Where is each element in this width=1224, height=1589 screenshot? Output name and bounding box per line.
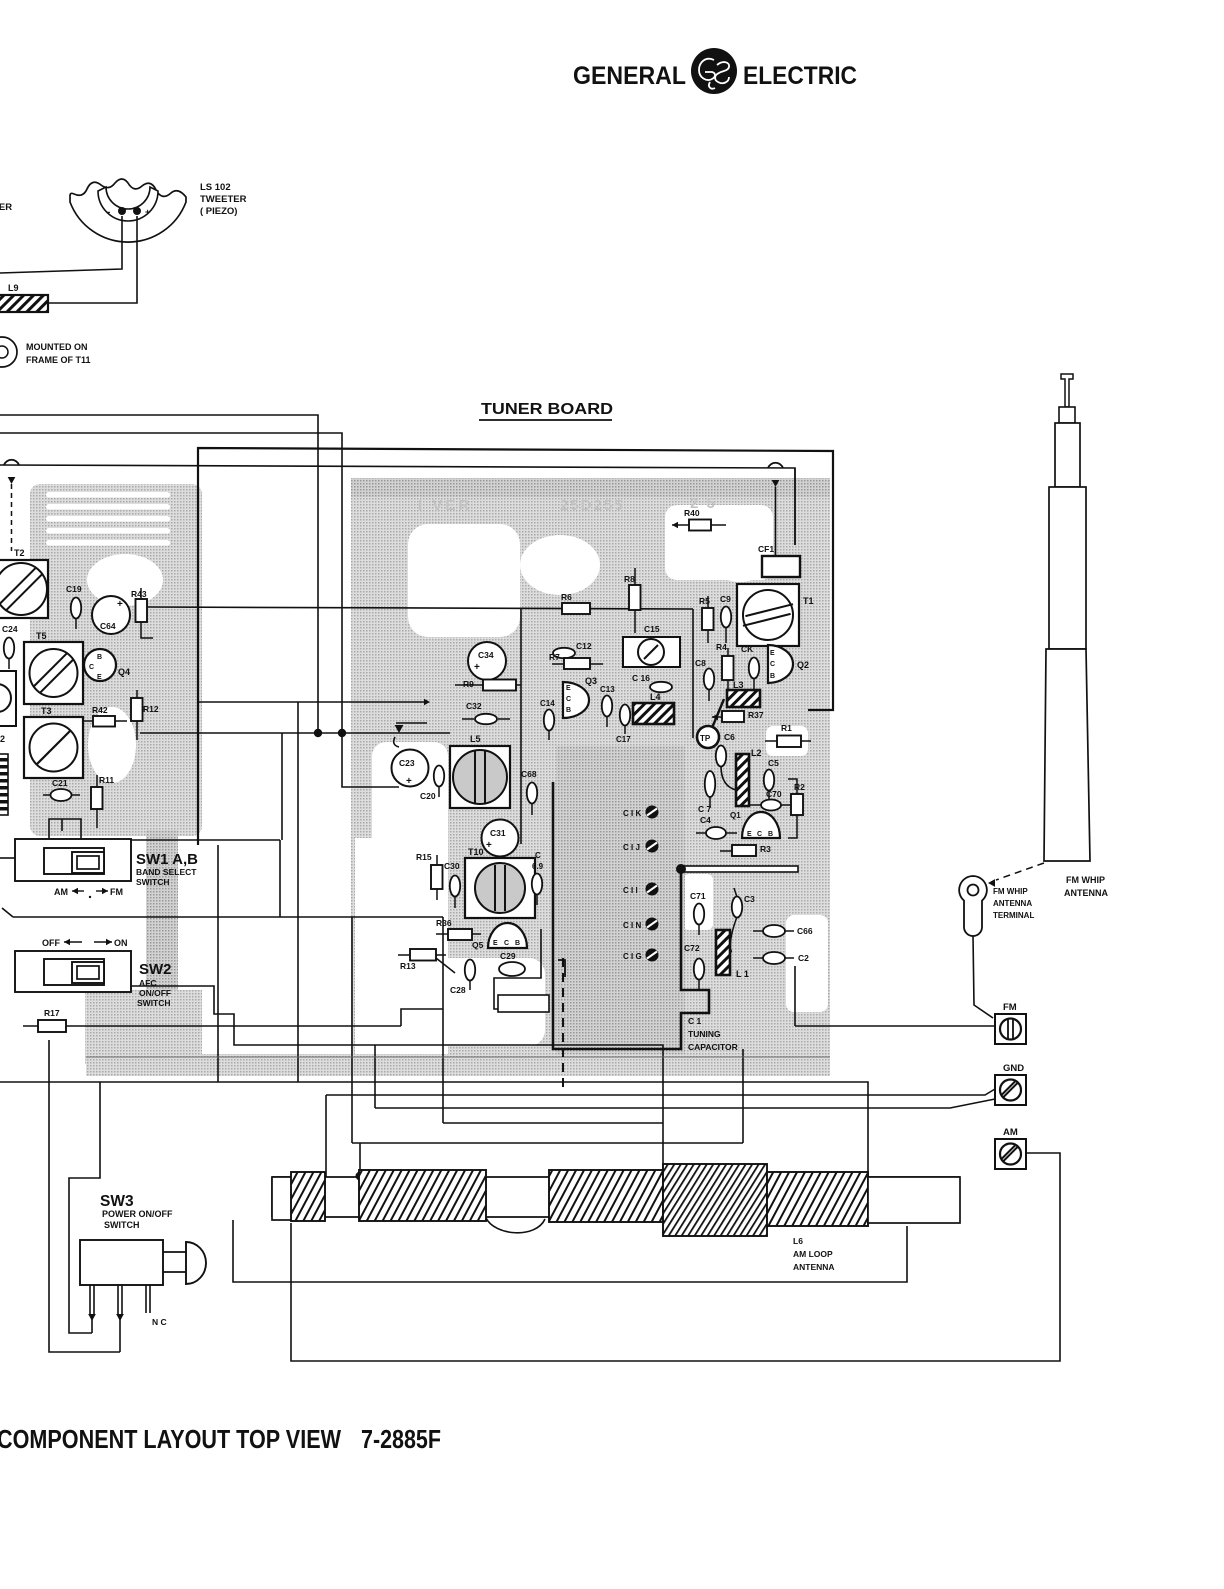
FM whip antenna <box>1044 374 1090 861</box>
svg-text:CF1: CF1 <box>758 544 774 554</box>
svg-text:L6: L6 <box>793 1236 803 1246</box>
svg-text:MOUNTED ON: MOUNTED ON <box>26 342 88 352</box>
svg-text:C I G: C I G <box>623 952 642 961</box>
capacitor C6 <box>716 732 736 790</box>
svg-text:C64: C64 <box>100 621 116 631</box>
svg-text:C8: C8 <box>695 658 706 668</box>
wire FM dipole feed <box>0 465 795 545</box>
svg-text:AM LOOP: AM LOOP <box>793 1249 833 1259</box>
trimmer C1G <box>623 949 659 962</box>
svg-text:C70: C70 <box>766 789 782 799</box>
svg-text:R11: R11 <box>99 775 114 785</box>
wire SW1 row <box>0 840 280 917</box>
svg-text:SWITCH: SWITCH <box>104 1220 140 1230</box>
capacitor C2 <box>753 952 809 964</box>
svg-text:6.9: 6.9 <box>532 862 544 871</box>
capacitor C8 <box>695 658 714 701</box>
wire from left edge y415 <box>0 415 318 733</box>
wire vertical x298 <box>297 702 299 1082</box>
transistor Q1 <box>730 811 780 838</box>
wire vertical x443 <box>442 917 444 1123</box>
capacitor C13 <box>600 685 615 727</box>
svg-text:CK: CK <box>741 644 754 654</box>
label AM FM arrows <box>54 887 123 898</box>
label SW2 AFC ON/OFF SWITCH <box>137 961 172 1008</box>
svg-text:T5: T5 <box>36 631 47 641</box>
svg-text:+: + <box>117 599 123 610</box>
trimmer C1I <box>623 883 659 896</box>
svg-text:C I J: C I J <box>623 843 640 852</box>
capacitor C64 <box>92 596 130 634</box>
svg-text:TP: TP <box>700 734 711 743</box>
svg-text:2: 2 <box>0 734 5 744</box>
svg-text:L9: L9 <box>8 283 19 293</box>
wire vertical x352 <box>351 917 353 1143</box>
wire vertical x100 <box>69 1082 100 1333</box>
svg-text:AFC: AFC <box>139 978 156 988</box>
resistor R5 <box>699 596 714 643</box>
svg-text:C68: C68 <box>521 769 537 779</box>
wire loop antenna lower left <box>233 1220 907 1282</box>
svg-text:SWITCH: SWITCH <box>136 877 170 887</box>
svg-text:GND: GND <box>1003 1063 1024 1074</box>
resistor R7 <box>549 652 603 669</box>
AM loop winding 4 <box>663 1164 767 1236</box>
svg-text:+: + <box>145 207 150 217</box>
wire loop left vertical <box>520 609 522 844</box>
inductor L5 <box>450 734 510 808</box>
svg-text:R12: R12 <box>143 704 159 714</box>
svg-text:R3: R3 <box>760 844 771 854</box>
resistor R1 <box>765 723 811 747</box>
svg-text:C32: C32 <box>466 701 482 711</box>
svg-text:C28: C28 <box>450 985 466 995</box>
transistor Q4 <box>84 649 130 681</box>
wire SW1 hook <box>49 819 81 843</box>
svg-text:FM: FM <box>1003 1002 1017 1013</box>
wire from left edge y433 <box>0 433 342 733</box>
svg-text:SW2: SW2 <box>139 961 172 978</box>
svg-text:R4: R4 <box>716 642 727 652</box>
wire SW3 pin2 <box>119 1315 121 1352</box>
label MOUNTED ON FRAME OF T11 <box>26 342 91 365</box>
transformer T2 <box>0 548 48 618</box>
capacitor C20 <box>420 766 444 802</box>
capacitor C28 <box>450 960 475 996</box>
svg-text:C17: C17 <box>616 735 631 744</box>
resistor R36 <box>436 918 481 940</box>
svg-text:+: + <box>406 776 412 787</box>
AM loop antenna core <box>272 1177 960 1217</box>
svg-text:C12: C12 <box>576 641 592 651</box>
svg-text:E: E <box>493 940 498 947</box>
svg-text:T2: T2 <box>14 548 25 558</box>
wire FM feed <box>795 966 995 1026</box>
wire y733 horizontal <box>140 729 450 737</box>
wire SW3 pin1 <box>91 1315 93 1333</box>
capacitor C12 <box>553 641 592 658</box>
svg-text:BAND SELECT: BAND SELECT <box>136 867 197 877</box>
svg-text:C6: C6 <box>724 732 735 742</box>
svg-text:L5: L5 <box>470 734 481 744</box>
svg-text:E: E <box>770 650 775 657</box>
switch SW1 band select <box>15 839 131 881</box>
trimmer C1J <box>623 840 659 853</box>
trimmer C1K <box>623 806 659 819</box>
label SW3 POWER ON/OFF SWITCH <box>100 1193 173 1230</box>
PCB copper strip bottom <box>86 1054 830 1076</box>
filter C15 <box>623 624 680 667</box>
svg-text:COMPONENT LAYOUT TOP VIEW: COMPONENT LAYOUT TOP VIEW <box>0 1424 341 1454</box>
resistor R11 <box>91 775 114 828</box>
svg-text:E: E <box>566 685 571 692</box>
AM loop left block <box>272 1177 293 1220</box>
wire SW1 bottom row <box>2 908 443 917</box>
wire vertical x49 to SW3 <box>49 1040 120 1352</box>
svg-text:R7: R7 <box>549 652 560 662</box>
svg-text:C30: C30 <box>444 861 460 871</box>
capacitor C30 <box>444 861 460 908</box>
trimmer C1N <box>623 918 659 931</box>
AM loop winding 3 <box>549 1170 663 1222</box>
wire bracket Q5 <box>494 929 541 1009</box>
speaker LS102 tweeter (piezo) <box>70 179 186 242</box>
resistor R2 <box>788 779 805 838</box>
AM loop winding 1 <box>291 1172 325 1221</box>
svg-text:ANTENNA: ANTENNA <box>993 899 1032 908</box>
resistor R15 <box>416 852 443 900</box>
svg-text:C15: C15 <box>644 624 660 634</box>
capacitor C17 <box>616 705 631 745</box>
svg-text:R13: R13 <box>400 961 416 971</box>
svg-text:FM WHIP: FM WHIP <box>993 887 1028 896</box>
svg-text:R40: R40 <box>684 508 700 518</box>
svg-text:TUNING: TUNING <box>688 1029 721 1039</box>
svg-text:C19: C19 <box>66 584 82 594</box>
resistor R17 <box>23 1008 84 1032</box>
capacitor C72 <box>684 943 704 991</box>
svg-text:TWEETER: TWEETER <box>200 194 247 205</box>
wire vertical x282 <box>281 733 283 840</box>
svg-text:T1: T1 <box>803 596 814 606</box>
svg-text:C: C <box>770 661 775 668</box>
svg-text:KER: KER <box>0 202 12 213</box>
svg-text:C24: C24 <box>2 624 18 634</box>
svg-text:R37: R37 <box>748 710 764 720</box>
wire R17 row y1026 <box>84 1009 443 1026</box>
inductor L1 <box>716 930 749 979</box>
svg-text:C29: C29 <box>500 951 516 961</box>
tuning capacitor C1 outline <box>553 782 709 1090</box>
svg-text:+: + <box>486 840 492 851</box>
svg-text:C 16: C 16 <box>632 673 650 683</box>
svg-text:T3: T3 <box>41 706 52 716</box>
transformer T3 <box>24 706 83 778</box>
inductor L9 <box>0 283 48 312</box>
switch SW2 AFC <box>15 951 131 992</box>
svg-text:C5: C5 <box>768 758 779 768</box>
transistor Q2 <box>768 645 809 683</box>
svg-text:B: B <box>770 673 775 680</box>
svg-text:R15: R15 <box>416 852 432 862</box>
svg-text:C I I: C I I <box>623 886 638 895</box>
svg-text:C4: C4 <box>700 815 711 825</box>
svg-text:7-2885F: 7-2885F <box>361 1424 441 1454</box>
svg-text:-: - <box>107 207 110 218</box>
svg-text:C: C <box>566 696 571 703</box>
capacitor C4 <box>696 815 737 839</box>
svg-text:FRAME OF T11: FRAME OF T11 <box>26 355 91 365</box>
svg-text:ON/OFF: ON/OFF <box>139 988 171 998</box>
switch SW3 pins <box>88 1285 166 1327</box>
svg-text:OFF: OFF <box>42 938 60 948</box>
transistor Q3 <box>563 676 597 718</box>
PCB copper region main tuner board <box>351 478 830 1076</box>
svg-text:C: C <box>757 831 762 838</box>
ghost silkscreen lettering <box>418 495 717 514</box>
AM loop right end plate <box>868 1177 960 1223</box>
svg-text:R43: R43 <box>131 589 147 599</box>
inductor L2 <box>736 748 762 806</box>
svg-text:C3: C3 <box>744 894 755 904</box>
resistor R9 <box>455 679 521 691</box>
pad rectangle <box>498 995 549 1012</box>
svg-text:B: B <box>515 940 520 947</box>
svg-text:Q3: Q3 <box>585 676 597 686</box>
svg-text:C I K: C I K <box>623 809 641 818</box>
svg-text:TUNER BOARD: TUNER BOARD <box>481 401 613 418</box>
capacitor C24 <box>2 624 18 669</box>
inductor L4 <box>633 692 674 724</box>
svg-text:C23: C23 <box>399 758 415 768</box>
svg-text:R1: R1 <box>781 723 792 733</box>
svg-text:Q2: Q2 <box>797 660 809 670</box>
svg-text:R8: R8 <box>624 574 635 584</box>
resistor R13 <box>398 949 455 973</box>
dipole terminal symbol right <box>768 463 795 556</box>
svg-text:E: E <box>747 831 752 838</box>
wire vertical x375 <box>374 1045 376 1108</box>
svg-text:L3: L3 <box>733 680 744 690</box>
transformer T1 <box>737 584 814 646</box>
svg-text:C13: C13 <box>600 685 615 694</box>
bus bar <box>676 864 798 874</box>
svg-text:C: C <box>504 940 509 947</box>
svg-text:C I N: C I N <box>623 921 641 930</box>
svg-text:C71: C71 <box>690 891 706 901</box>
svg-text:ELECTRIC: ELECTRIC <box>743 62 857 90</box>
svg-text:T10: T10 <box>468 847 484 857</box>
wire bundle y1123 <box>443 1122 663 1124</box>
svg-text:AM: AM <box>1003 1127 1018 1138</box>
svg-text:FM: FM <box>110 887 123 897</box>
svg-text:POWER ON/OFF: POWER ON/OFF <box>102 1209 173 1219</box>
capacitor C32 <box>462 701 510 724</box>
svg-text:R9: R9 <box>463 679 474 689</box>
svg-text:Q1: Q1 <box>730 811 741 820</box>
connector edge stripes <box>0 754 8 815</box>
label FM WHIP ANTENNA <box>1064 875 1108 898</box>
capacitor C19 <box>66 584 82 629</box>
label C1 TUNING CAPACITOR <box>688 1016 738 1052</box>
svg-text:E: E <box>97 674 102 681</box>
tuner board outline <box>198 448 833 845</box>
svg-text:GENERAL: GENERAL <box>573 62 686 90</box>
mount symbol circle <box>0 337 17 367</box>
title TUNER BOARD <box>479 401 613 420</box>
svg-text:I VER: I VER <box>418 497 472 514</box>
wire antenna dashed to terminal <box>988 863 1044 887</box>
capacitor C34 <box>468 642 506 680</box>
svg-text:C66: C66 <box>797 926 813 936</box>
node A marker <box>394 723 427 747</box>
resistor R8 <box>624 568 641 633</box>
svg-text:ANTENNA: ANTENNA <box>793 1262 835 1272</box>
capacitor C7 <box>698 771 715 814</box>
svg-text:( PIEZO): ( PIEZO) <box>200 206 237 217</box>
wire SW2 to bundle <box>131 986 663 1177</box>
svg-text:+: + <box>474 662 480 673</box>
svg-text:C: C <box>535 851 541 860</box>
resistor R42 <box>82 705 127 727</box>
resistor R40 <box>672 508 726 531</box>
capacitor C16 <box>632 673 672 692</box>
capacitor C68 <box>521 769 537 815</box>
svg-text:C2: C2 <box>798 953 809 963</box>
coil T10 <box>465 847 535 918</box>
svg-text:Q5: Q5 <box>472 940 484 950</box>
svg-text:C20: C20 <box>420 791 436 801</box>
capacitor C5 <box>764 758 779 800</box>
wire bundle y1095 to GND <box>326 1089 995 1095</box>
label OFF ON arrows <box>42 938 128 948</box>
svg-text:C34: C34 <box>478 650 494 660</box>
capacitor C29 <box>499 951 525 976</box>
wire arrow A horizontal <box>198 699 430 706</box>
transistor Q5 <box>472 923 527 950</box>
ceramic filter CF1 <box>758 544 800 577</box>
wire vertical x360 to loop antenna <box>356 1143 365 1181</box>
test point TP <box>697 699 724 748</box>
svg-text:LS 102: LS 102 <box>200 182 231 193</box>
wire vertical x218 <box>217 845 219 1082</box>
capacitor C71 <box>690 891 706 935</box>
svg-text:C 1: C 1 <box>688 1016 702 1026</box>
svg-text:SWITCH: SWITCH <box>137 998 171 1008</box>
svg-text:SW3: SW3 <box>100 1193 134 1210</box>
label FM WHIP ANTENNA TERMINAL <box>993 887 1034 920</box>
board bottom edge <box>86 1056 830 1058</box>
svg-text:B: B <box>566 707 571 714</box>
svg-text:L4: L4 <box>650 692 661 702</box>
wire bundle y1143 <box>352 1142 743 1144</box>
svg-text:B: B <box>97 654 102 661</box>
capacitor C23 <box>392 750 429 788</box>
wire bundle y1082 <box>0 1082 868 1177</box>
svg-text:ON: ON <box>114 938 128 948</box>
svg-text:TERMINAL: TERMINAL <box>993 911 1034 920</box>
wire vertical x743 from tuning capacitor <box>742 1049 744 1143</box>
capacitor C66 <box>753 925 813 937</box>
svg-text:R6: R6 <box>561 592 572 602</box>
svg-text:FM WHIP: FM WHIP <box>1066 875 1105 885</box>
dipole terminal symbol left <box>4 460 19 551</box>
svg-text:L 1: L 1 <box>736 969 749 979</box>
svg-text:C 7: C 7 <box>698 804 712 814</box>
svg-text:B: B <box>768 831 773 838</box>
wire to C23 <box>342 733 399 787</box>
capacitor C70 <box>750 789 791 811</box>
svg-text:SW1 A,B: SW1 A,B <box>136 851 198 868</box>
svg-text:L2: L2 <box>751 748 762 758</box>
wire tweeter negative to left edge <box>0 216 122 273</box>
capacitor C31 <box>482 820 519 857</box>
svg-text:C21: C21 <box>52 778 68 788</box>
label SW1 A,B BAND SELECT SWITCH <box>136 851 198 887</box>
capacitor C9 <box>720 594 731 643</box>
capacitor C14 <box>540 699 555 740</box>
transformer T5 <box>24 631 83 704</box>
caption COMPONENT LAYOUT TOP VIEW 7-2885F <box>0 1424 441 1454</box>
switch SW3 power <box>80 1240 206 1285</box>
AM loop winding 2 <box>359 1170 486 1221</box>
capacitor C3 <box>726 888 755 954</box>
svg-text:C9: C9 <box>720 594 731 604</box>
AM loop wire droop <box>486 1218 545 1233</box>
wire AM loop to AM terminal <box>291 1153 1060 1361</box>
wire R43 row to loop top <box>148 607 693 609</box>
svg-text:C72: C72 <box>684 943 700 953</box>
svg-text:C14: C14 <box>540 699 555 708</box>
component cut at left edge <box>0 671 16 744</box>
wire bundle y1108 to GND <box>375 1099 995 1108</box>
resistor R6 <box>561 592 590 614</box>
resistor R4 <box>716 642 734 689</box>
svg-text:ANTENNA: ANTENNA <box>1064 888 1108 898</box>
wire vertical x326 <box>325 1095 327 1177</box>
capacitor CK <box>741 644 759 689</box>
AM loop winding 5 <box>767 1172 868 1226</box>
svg-text:Q4: Q4 <box>118 667 130 677</box>
resistor R12 <box>131 690 159 740</box>
wire tweeter positive to L9 <box>48 216 137 303</box>
svg-text:R17: R17 <box>44 1008 60 1018</box>
svg-text:R42: R42 <box>92 705 108 715</box>
FM whip antenna terminal <box>959 876 987 936</box>
resistor R3 <box>720 844 771 856</box>
capacitor C21 <box>43 778 80 801</box>
svg-text:R2: R2 <box>794 782 805 792</box>
resistor R37 <box>712 710 764 722</box>
svg-text:AM: AM <box>54 887 68 897</box>
GE logo GENERAL ELECTRIC <box>573 48 857 94</box>
inductor L3 <box>727 680 760 707</box>
label L6 AM LOOP ANTENNA <box>793 1236 835 1272</box>
resistor R43 <box>131 588 153 638</box>
label LS102 TWEETER PIEZO <box>200 182 247 217</box>
svg-text:C31: C31 <box>490 828 506 838</box>
wire loop right vertical <box>692 609 694 738</box>
svg-text:N C: N C <box>152 1317 167 1327</box>
svg-text:R36: R36 <box>436 918 452 928</box>
PCB copper region left board <box>30 484 202 1066</box>
capacitor C69 <box>532 851 544 905</box>
wire terminal to FM lug <box>973 936 993 1018</box>
svg-text:C: C <box>89 664 94 671</box>
svg-text:25D255: 25D255 <box>560 497 625 514</box>
svg-text:CAPACITOR: CAPACITOR <box>688 1042 738 1052</box>
